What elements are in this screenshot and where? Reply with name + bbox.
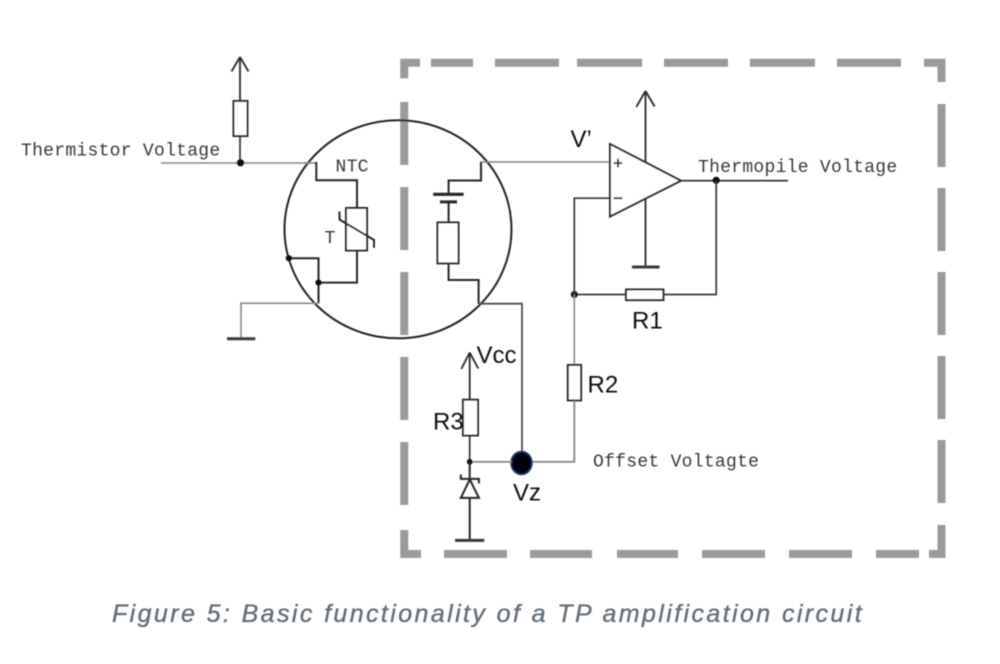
node output junction — [713, 177, 720, 184]
wire thermopile top step — [449, 162, 481, 194]
wire NTC bottom step — [319, 251, 358, 283]
thermopile resistor body — [438, 222, 459, 263]
svg-text:R3: R3 — [433, 409, 464, 436]
resistor R2 body — [568, 365, 581, 400]
output wire — [681, 180, 788, 182]
resistor R1 body — [626, 290, 663, 301]
svg-text:Figure 5: Basic functionality: Figure 5: Basic functionality of a TP am… — [112, 600, 864, 628]
svg-text:Vcc: Vcc — [477, 342, 517, 369]
bias resistor top-left — [234, 101, 248, 136]
node case contact — [286, 255, 292, 261]
wire NTC top step — [315, 163, 357, 208]
zener diode cathode bar — [461, 475, 479, 484]
wire NTC node down — [318, 283, 320, 304]
svg-text:R1: R1 — [632, 308, 663, 335]
ground zener — [455, 539, 484, 542]
node Vz big dot — [511, 452, 532, 475]
svg-text:Vz: Vz — [513, 480, 541, 507]
svg-text:Thermistor Voltage: Thermistor Voltage — [21, 142, 220, 162]
wire resistor to node — [239, 136, 241, 163]
op-amp power arrow — [636, 91, 654, 162]
wire R1 to inverting node — [574, 294, 626, 296]
NTC resistor body — [346, 208, 367, 251]
minus input mark — [614, 197, 623, 199]
wire zener to ground — [469, 498, 471, 540]
plus input mark — [614, 159, 623, 168]
wire emf to resistor — [448, 202, 450, 222]
wire offset node left segment — [470, 461, 512, 463]
ground left — [227, 337, 255, 340]
svg-text:Offset Voltagte: Offset Voltagte — [593, 453, 759, 473]
Vcc arrow — [461, 353, 478, 400]
thermopile emf short bar — [440, 200, 457, 203]
svg-text:NTC: NTC — [336, 158, 369, 178]
op-amp ground stem — [645, 198, 647, 266]
resistor R3 body — [463, 400, 478, 436]
zener diode triangle — [461, 479, 479, 498]
wire V prime — [481, 161, 610, 163]
dashed enclosure box — [404, 63, 941, 554]
wire node to R2 — [573, 295, 575, 366]
svg-text:T: T — [325, 229, 336, 249]
feedback wire from output — [663, 181, 716, 295]
NTC slash — [340, 212, 375, 248]
node R3 zener junction — [467, 459, 473, 465]
svg-text:V’: V’ — [571, 126, 592, 153]
wire R3 to offset node — [469, 436, 471, 463]
sensor can circle — [285, 120, 512, 338]
thermopile emf long bar — [433, 193, 463, 196]
svg-text:Thermopile Voltage: Thermopile Voltage — [698, 158, 897, 178]
node inverting junction — [571, 291, 578, 298]
wire case stub — [289, 258, 319, 282]
op-amp triangle U1 — [610, 144, 681, 217]
wire NTC to ground — [241, 303, 319, 338]
wire sensor to Vz node — [479, 304, 522, 453]
power arrow top-left — [232, 57, 249, 101]
svg-text:R2: R2 — [588, 372, 619, 399]
node NTC bottom — [315, 280, 321, 286]
op-amp ground bar — [632, 266, 660, 269]
wire R2 to offset node — [522, 400, 574, 461]
wire node to zener — [469, 462, 471, 479]
wire thermistor voltage — [161, 162, 315, 164]
wire inverting node to op-amp minus — [574, 198, 610, 294]
node thermistor junction — [237, 159, 244, 166]
wire thermopile bottom step — [449, 263, 479, 303]
